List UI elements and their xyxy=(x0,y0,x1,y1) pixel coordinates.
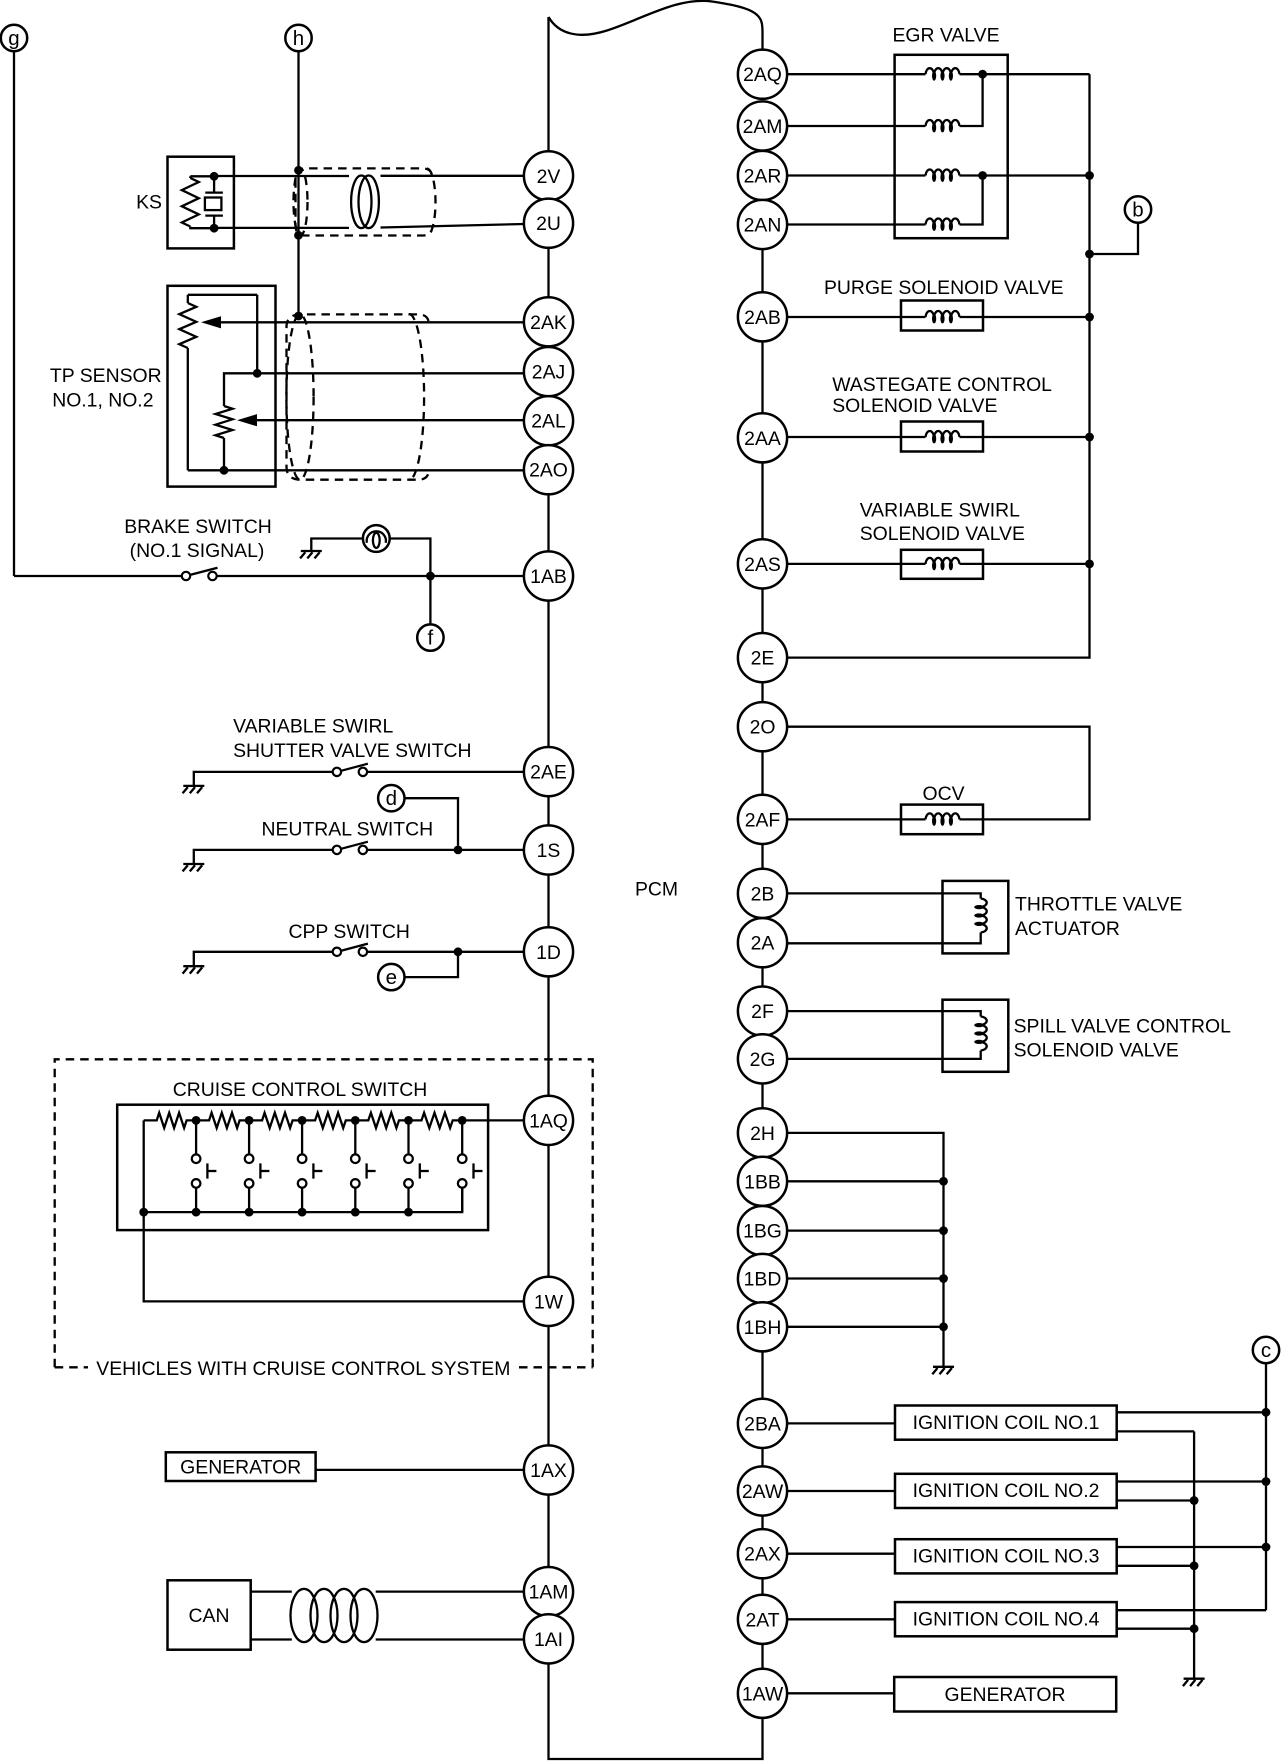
ignition coil no.1 box xyxy=(895,1406,1117,1440)
wire TP2 bottom xyxy=(223,438,225,470)
svg-text:1BG: 1BG xyxy=(743,1221,782,1243)
PCM pin 2AA xyxy=(738,413,787,462)
resistor cruise R5 xyxy=(355,1113,408,1128)
junction cruise top 5 xyxy=(404,1116,413,1125)
junction KS bottom xyxy=(210,224,219,233)
wire purge coil to bus xyxy=(960,316,1090,318)
wire to EGR coil 1 xyxy=(787,73,925,75)
svg-text:1AM: 1AM xyxy=(529,1582,569,1604)
wire ground to shutter contact xyxy=(194,772,333,786)
wire right column segment xyxy=(761,1351,763,1398)
wire column 1AB-2AE xyxy=(547,601,549,747)
resistor TP1 zigzag xyxy=(179,303,196,348)
wire right column segment xyxy=(761,751,763,795)
PCM pin 1AI xyxy=(524,1614,573,1663)
wire EGR coil2 link xyxy=(960,74,983,126)
svg-text:2AS: 2AS xyxy=(744,554,781,576)
wire cruise bus to 1W xyxy=(144,1212,524,1301)
wire to EGR coil 3 xyxy=(787,174,925,176)
wire left column top riser xyxy=(547,17,549,151)
svg-text:2V: 2V xyxy=(537,166,561,188)
junction TP 2AJ xyxy=(253,369,262,378)
junction CPP/e xyxy=(454,947,463,956)
PCM pin 2E xyxy=(738,633,787,682)
junction cruise bottom 1 xyxy=(139,1208,148,1217)
wire neutral switch to 1S xyxy=(367,849,524,851)
wire wastegate coil to bus xyxy=(960,436,1090,438)
svg-text:WASTEGATE CONTROL: WASTEGATE CONTROL xyxy=(832,374,1052,396)
wire TP wiper feed xyxy=(224,373,257,406)
wire IGNITION COIL NO.1 output B xyxy=(1118,1430,1194,1432)
PCM pin 2AX xyxy=(738,1529,787,1578)
wire right column segment xyxy=(761,1644,763,1669)
PCM pin 1BB xyxy=(738,1157,787,1206)
wire CPP switch to 1D xyxy=(367,951,524,953)
svg-text:PURGE SOLENOID VALVE: PURGE SOLENOID VALVE xyxy=(824,277,1064,299)
svg-text:VARIABLE SWIRL: VARIABLE SWIRL xyxy=(233,716,393,738)
wire cruise left drop xyxy=(143,1120,145,1212)
wire TP top link xyxy=(188,294,257,296)
wire cruise bottom bus xyxy=(144,1188,463,1212)
resistor TP2 zigzag xyxy=(216,406,233,438)
wire pin to IGNITION COIL NO.4 xyxy=(787,1618,894,1620)
coil OCV xyxy=(926,813,960,826)
svg-text:b: b xyxy=(1132,199,1143,222)
junction cruise bottom 5 xyxy=(351,1208,360,1217)
coil EGR L4 xyxy=(926,218,960,231)
wire right column segment xyxy=(761,1516,763,1530)
wire outer ignition bus xyxy=(1265,1412,1267,1610)
svg-text:f: f xyxy=(428,627,434,650)
ground shutter switch xyxy=(183,786,205,793)
PCM pin 1AM xyxy=(524,1567,573,1616)
junction cruise bottom 6 xyxy=(404,1208,413,1217)
wire pin to IGNITION COIL NO.3 xyxy=(787,1553,894,1555)
wire ground to lamp xyxy=(311,539,363,552)
wire KS to twist top xyxy=(214,175,349,177)
wire 1BB to ground bus xyxy=(787,1180,943,1182)
dashed box vehicles with cruise control xyxy=(55,1059,593,1367)
svg-text:2AL: 2AL xyxy=(531,411,566,433)
cruise control switch box xyxy=(117,1105,488,1230)
wire IGNITION COIL NO.1 output A xyxy=(1118,1411,1266,1413)
svg-text:2E: 2E xyxy=(751,648,775,670)
svg-text:e: e xyxy=(386,966,397,989)
purge solenoid box xyxy=(901,301,983,331)
wire column 2U-2AK xyxy=(547,248,549,297)
svg-text:SOLENOID VALVE: SOLENOID VALVE xyxy=(860,523,1025,545)
wire arrow to 2AL xyxy=(254,419,524,421)
coil variable swirl solenoid xyxy=(926,558,960,571)
wire 2AB to purge coil xyxy=(787,316,925,318)
spill valve box xyxy=(943,1000,1009,1072)
wire column 1W-1AX xyxy=(547,1326,549,1445)
wire 2F to spill coil xyxy=(787,1011,981,1016)
ground ignition coils xyxy=(1183,1679,1205,1686)
wire right column segment xyxy=(761,1448,763,1466)
junction outer bus coil2 xyxy=(1262,1477,1271,1486)
wire c down to coil bus xyxy=(1265,1363,1267,1412)
svg-text:2AE: 2AE xyxy=(530,762,567,784)
PCM pin 2AK xyxy=(524,297,573,346)
svg-text:PCM: PCM xyxy=(635,878,678,900)
wire 1AW to generator xyxy=(787,1692,894,1694)
wire e to CPP junction xyxy=(405,956,459,977)
svg-text:2H: 2H xyxy=(750,1123,775,1145)
PCM pin 1AX xyxy=(524,1445,573,1494)
PCM pin 2V xyxy=(524,151,573,200)
junction inner bus coil2 xyxy=(1190,1496,1199,1505)
svg-text:VARIABLE SWIRL: VARIABLE SWIRL xyxy=(860,500,1020,522)
svg-text:NEUTRAL SWITCH: NEUTRAL SWITCH xyxy=(262,819,434,841)
ground brake lamp xyxy=(300,551,322,558)
resistor cruise R3 xyxy=(249,1113,302,1128)
svg-text:EGR VALVE: EGR VALVE xyxy=(892,25,999,47)
wire right column segment xyxy=(761,1084,763,1109)
coil purge solenoid xyxy=(926,311,960,324)
wire arrow to 2AK xyxy=(218,321,524,323)
svg-text:2AF: 2AF xyxy=(745,809,781,831)
svg-text:1AQ: 1AQ xyxy=(529,1110,568,1132)
wire vs coil to bus xyxy=(960,563,1090,565)
wire EGR row1 to bus xyxy=(983,73,1090,75)
KS box xyxy=(168,157,234,249)
svg-text:2BA: 2BA xyxy=(744,1413,781,1435)
svg-text:2AT: 2AT xyxy=(745,1609,779,1631)
junction ground bus 1BG xyxy=(939,1226,948,1235)
svg-text:GENERATOR: GENERATOR xyxy=(944,1684,1065,1706)
PCM pin 2F xyxy=(738,987,787,1036)
svg-text:NO.1, NO.2: NO.1, NO.2 xyxy=(52,390,153,412)
wire TP bottom to 2AO xyxy=(188,469,525,471)
lamp brake indicator xyxy=(363,525,390,552)
svg-text:SOLENOID VALVE: SOLENOID VALVE xyxy=(832,395,997,417)
PCM pin 2G xyxy=(738,1034,787,1083)
junction h / KS shield xyxy=(294,166,303,175)
wire 2O loop to OCV xyxy=(787,727,1089,820)
svg-text:d: d xyxy=(386,787,397,810)
svg-text:1AB: 1AB xyxy=(530,566,567,588)
junction bus b branch xyxy=(1085,250,1094,259)
junction cruise top 4 xyxy=(351,1116,360,1125)
svg-text:2AW: 2AW xyxy=(742,1481,784,1503)
wire inner ignition bus xyxy=(1193,1431,1195,1678)
connector e xyxy=(378,964,404,990)
ground CPP switch xyxy=(183,966,205,973)
svg-text:CAN: CAN xyxy=(189,1605,230,1627)
wire TP right drop xyxy=(256,295,258,374)
potentiometer resistor TP1 xyxy=(187,295,189,303)
PCM pin 2AW xyxy=(738,1466,787,1515)
svg-text:1BD: 1BD xyxy=(744,1269,782,1291)
wire KS resistor top link xyxy=(190,175,214,177)
PCM pin 2AL xyxy=(524,396,573,445)
twisted pair CAN xyxy=(291,1589,378,1642)
variable swirl solenoid box xyxy=(901,550,983,579)
pushbutton switch cruise S5 xyxy=(404,1120,429,1212)
cable shield KS xyxy=(294,168,436,235)
PCM pin 2U xyxy=(524,199,573,248)
junction bus variable swirl xyxy=(1085,560,1094,569)
wire column 2AE-1S xyxy=(547,796,549,825)
junction ground bus 1BB xyxy=(939,1177,948,1186)
svg-text:2F: 2F xyxy=(751,1001,774,1023)
wire generator to 1AX xyxy=(316,1469,524,1471)
wire twist to 1AI xyxy=(376,1638,524,1640)
svg-text:2U: 2U xyxy=(536,213,561,235)
PCM pin 2AT xyxy=(738,1595,787,1644)
svg-text:2AK: 2AK xyxy=(530,312,567,334)
coil EGR L1 xyxy=(926,68,960,81)
junction TP bottom xyxy=(220,466,229,475)
PCM pin 2AE xyxy=(524,747,573,796)
PCM pin 1AB xyxy=(524,551,573,600)
wire right column segment xyxy=(761,589,763,634)
wire twist to 1AM xyxy=(376,1590,524,1592)
svg-text:2AO: 2AO xyxy=(529,460,568,482)
wire lamp to junction and f xyxy=(390,539,431,625)
PCM pin 2AJ xyxy=(524,347,573,396)
svg-text:2G: 2G xyxy=(750,1049,776,1071)
svg-text:1D: 1D xyxy=(536,942,561,964)
wire bus b down to 2E xyxy=(787,74,1089,657)
wiper arrow 2AL xyxy=(237,414,257,426)
wire pin to IGNITION COIL NO.2 xyxy=(787,1490,894,1492)
junction cruise top 1 xyxy=(192,1116,201,1125)
svg-text:h: h xyxy=(293,27,304,50)
junction bus purge xyxy=(1085,313,1094,322)
connector c xyxy=(1253,1337,1279,1363)
junction outer bus coil3 xyxy=(1262,1543,1271,1552)
wire spill coil to 2G xyxy=(787,1051,981,1059)
resistor KS zigzag xyxy=(182,178,199,227)
PCM pin 1S xyxy=(524,825,573,874)
coil EGR L3 xyxy=(926,169,960,182)
svg-text:SHUTTER VALVE SWITCH: SHUTTER VALVE SWITCH xyxy=(233,740,471,762)
wire g to brake contact xyxy=(14,575,182,577)
pushbutton switch cruise S6 xyxy=(458,1120,483,1212)
wire 2B to throttle coil xyxy=(787,893,981,898)
wire column 1S-1D xyxy=(547,875,549,928)
svg-text:1AW: 1AW xyxy=(742,1683,784,1705)
junction cruise bottom 2 xyxy=(192,1208,201,1217)
svg-text:2AN: 2AN xyxy=(744,215,782,237)
svg-text:KS: KS xyxy=(136,192,162,214)
svg-text:2AJ: 2AJ xyxy=(532,362,565,384)
coil wastegate solenoid xyxy=(926,431,960,444)
wire brake switch to 1AB xyxy=(217,575,524,577)
wire column 2AO-1AB xyxy=(547,494,549,551)
svg-text:BRAKE SWITCH: BRAKE SWITCH xyxy=(124,516,272,538)
junction outer bus coil1 xyxy=(1262,1408,1271,1417)
svg-text:(NO.1 SIGNAL): (NO.1 SIGNAL) xyxy=(130,540,265,562)
wire cruise chain to 1AQ xyxy=(462,1119,525,1121)
wire 1BD to ground bus xyxy=(787,1277,943,1279)
wire EGR coil1 out xyxy=(960,73,983,75)
PCM pin 1D xyxy=(524,927,573,976)
coil spill valve xyxy=(974,1017,987,1051)
svg-text:THROTTLE VALVE: THROTTLE VALVE xyxy=(1015,894,1182,916)
wire b to bus xyxy=(1090,223,1139,254)
svg-text:2AR: 2AR xyxy=(744,166,782,188)
PCM pin 2B xyxy=(738,869,787,918)
resistor cruise R2 xyxy=(196,1113,249,1128)
wire IGNITION COIL NO.4 output A xyxy=(1118,1609,1266,1611)
ground sensor returns xyxy=(932,1367,954,1374)
wire wavy jumper to right column xyxy=(549,1,763,50)
PCM pin 1BH xyxy=(738,1302,787,1351)
svg-text:SOLENOID VALVE: SOLENOID VALVE xyxy=(1014,1039,1179,1061)
junction ground bus 1BH xyxy=(939,1322,948,1331)
wire bottom loop to 1AW xyxy=(549,1664,763,1760)
svg-text:OCV: OCV xyxy=(922,783,964,805)
generator box left xyxy=(166,1452,316,1481)
junction bus row3 xyxy=(1085,171,1094,180)
PCM pin 2AS xyxy=(738,539,787,588)
PCM pin 2AB xyxy=(738,292,787,341)
svg-text:ACTUATOR: ACTUATOR xyxy=(1015,918,1120,940)
resistor in KS xyxy=(189,176,191,178)
wire IGNITION COIL NO.3 output A xyxy=(1118,1546,1266,1548)
wire right column segment xyxy=(761,341,763,413)
svg-text:2AB: 2AB xyxy=(744,307,781,329)
svg-text:VEHICLES WITH CRUISE CONTROL S: VEHICLES WITH CRUISE CONTROL SYSTEM xyxy=(96,1358,510,1380)
throttle valve actuator box xyxy=(943,881,1009,954)
PCM pin 2O xyxy=(738,702,787,751)
wire KS to twist bottom xyxy=(214,227,349,229)
wire to EGR coil 2 xyxy=(787,125,925,127)
coil throttle valve actuator xyxy=(974,899,987,933)
twisted pair KS xyxy=(351,176,379,229)
svg-text:CRUISE CONTROL SWITCH: CRUISE CONTROL SWITCH xyxy=(173,1079,428,1101)
svg-text:CPP SWITCH: CPP SWITCH xyxy=(289,921,410,943)
svg-text:2AM: 2AM xyxy=(743,116,783,138)
resistor cruise R4 xyxy=(302,1113,355,1128)
ignition coil no.4 box xyxy=(895,1602,1117,1636)
wire 2H to ground bus xyxy=(787,1133,943,1367)
wire column 1AQ-1W xyxy=(547,1145,549,1277)
pushbutton switch cruise S1 xyxy=(192,1120,217,1212)
wire to 2AJ xyxy=(257,372,525,374)
junction cruise top 6 xyxy=(458,1116,467,1125)
PCM pin 2A xyxy=(738,918,787,967)
svg-text:2B: 2B xyxy=(751,883,775,905)
svg-text:TP SENSOR: TP SENSOR xyxy=(50,365,162,387)
junction KS shield bottom xyxy=(294,231,303,240)
connector h xyxy=(285,25,311,51)
wire CAN twist bottom left xyxy=(251,1638,292,1640)
wire 1BG to ground bus xyxy=(787,1229,943,1231)
junction neutral/d xyxy=(454,846,463,855)
cable shield TP xyxy=(286,314,428,480)
wire column 1AX-1AM xyxy=(547,1495,549,1568)
PCM pin 1AW xyxy=(738,1669,787,1718)
PCM pin 2AF xyxy=(738,795,787,844)
neutral switch contacts xyxy=(333,842,368,854)
piezo element KS xyxy=(205,176,223,228)
wire 2AA to wastegate coil xyxy=(787,436,925,438)
wire to EGR coil 4 xyxy=(787,223,925,225)
wire CAN twist top left xyxy=(251,1590,292,1592)
junction EGR 3 xyxy=(978,171,987,180)
wire IGNITION COIL NO.2 output A xyxy=(1118,1480,1266,1482)
pushbutton switch cruise S4 xyxy=(351,1120,376,1212)
wire pin to IGNITION COIL NO.1 xyxy=(787,1422,894,1424)
PCM pin 2H xyxy=(738,1108,787,1157)
wire shutter switch to 2AE xyxy=(367,771,524,773)
PCM pin 1BG xyxy=(738,1206,787,1255)
PCM pin 2AM xyxy=(738,101,787,150)
wire h shield drain xyxy=(297,51,299,316)
wire 1BH to ground bus xyxy=(787,1326,943,1328)
PCM pin 2AO xyxy=(524,445,573,494)
svg-text:1W: 1W xyxy=(534,1291,564,1313)
svg-text:2AX: 2AX xyxy=(744,1544,781,1566)
ignition coil no.2 box xyxy=(895,1474,1117,1508)
coil EGR L2 xyxy=(926,120,960,133)
svg-text:SPILL VALVE CONTROL: SPILL VALVE CONTROL xyxy=(1014,1016,1232,1038)
wire IGNITION COIL NO.2 output B xyxy=(1118,1499,1194,1501)
pushbutton switch cruise S3 xyxy=(298,1120,323,1212)
CPP switch contacts xyxy=(333,944,368,956)
connector b xyxy=(1125,196,1151,222)
svg-text:1BH: 1BH xyxy=(744,1317,782,1339)
junction EGR 1 xyxy=(978,70,987,79)
wastegate solenoid box xyxy=(901,422,983,452)
wire EGR coil4 link xyxy=(960,176,983,225)
junction inner bus coil4 xyxy=(1190,1624,1199,1633)
PCM pin 1AQ xyxy=(524,1096,573,1145)
wire g to brake switch xyxy=(13,51,15,576)
wire right column segment xyxy=(761,682,763,702)
junction KS top xyxy=(210,172,219,181)
svg-text:1AI: 1AI xyxy=(534,1629,563,1651)
svg-text:IGNITION COIL NO.4: IGNITION COIL NO.4 xyxy=(913,1609,1100,1631)
junction brake/f xyxy=(426,572,435,581)
svg-text:c: c xyxy=(1261,1339,1271,1362)
wire ground to CPP contact xyxy=(194,952,333,966)
PCM pin 1BD xyxy=(738,1254,787,1303)
brake switch contacts xyxy=(182,568,218,580)
wire 2AS to vs coil xyxy=(787,563,925,565)
shutter valve switch contacts xyxy=(333,764,368,776)
wire 2AF to OCV coil xyxy=(787,818,925,820)
wiper arrow 2AK xyxy=(201,316,221,328)
connector g xyxy=(1,25,27,51)
resistor cruise R1 xyxy=(144,1113,196,1128)
wire throttle coil to 2A xyxy=(787,933,981,944)
svg-text:1BB: 1BB xyxy=(744,1171,781,1193)
wire right column segment xyxy=(761,1578,763,1594)
PCM pin 2AQ xyxy=(738,50,787,99)
junction inner bus coil3 xyxy=(1190,1561,1199,1570)
wire KS resistor bottom link xyxy=(190,227,214,229)
svg-text:IGNITION COIL NO.3: IGNITION COIL NO.3 xyxy=(913,1546,1100,1568)
junction cruise top 3 xyxy=(298,1116,307,1125)
wire EGR row3 to bus xyxy=(983,174,1090,176)
generator box right xyxy=(894,1677,1116,1712)
svg-text:1S: 1S xyxy=(537,840,561,862)
svg-text:2O: 2O xyxy=(750,717,776,739)
svg-text:g: g xyxy=(8,27,19,50)
PCM pin 2AR xyxy=(738,151,787,200)
junction h / TP shield xyxy=(294,312,303,321)
resistor cruise R6 xyxy=(409,1113,463,1128)
svg-text:IGNITION COIL NO.2: IGNITION COIL NO.2 xyxy=(913,1480,1100,1502)
wire twist to 2V xyxy=(381,175,524,177)
PCM pin 1W xyxy=(524,1277,573,1326)
ignition coil no.3 box xyxy=(895,1539,1117,1573)
